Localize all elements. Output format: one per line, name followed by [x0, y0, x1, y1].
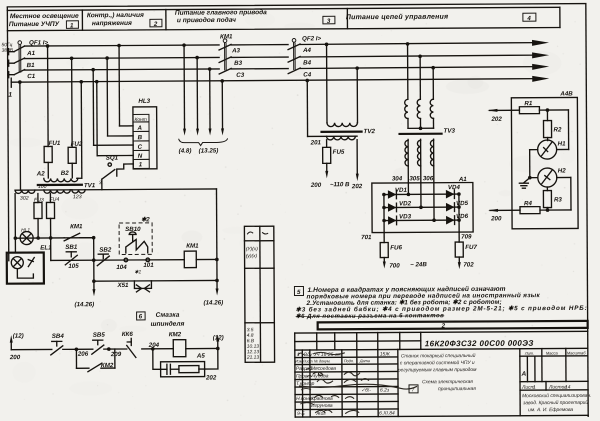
svg-text:Станок токарный специальный: Станок токарный специальный: [401, 352, 476, 359]
svg-text:КМ1: КМ1: [70, 223, 83, 230]
contact KM2 auxiliary: [76, 349, 115, 372]
svg-text:✱6 Для поставки разъема на 6 к: ✱6 Для поставки разъема на 6 контактов: [296, 312, 445, 320]
title block signature grid: [295, 348, 588, 417]
svg-text:✓б!-: ✓б!-: [361, 388, 371, 394]
svg-text:Схема электрическая: Схема электрическая: [422, 379, 473, 385]
svg-text:101: 101: [143, 262, 154, 269]
svg-text:302: 302: [20, 196, 29, 202]
pushbutton SB2: [97, 247, 112, 266]
svg-text:(12): (12): [213, 334, 224, 341]
svg-text:200: 200: [310, 182, 322, 189]
circuit breaker QF2: [288, 35, 322, 73]
svg-text:VD4: VD4: [448, 184, 461, 191]
svg-text:А4: А4: [302, 47, 312, 54]
circuit breaker QF1: [14, 39, 49, 74]
svg-text:VD1: VD1: [395, 187, 408, 194]
svg-text:6.В: 6.В: [247, 338, 255, 344]
wire neutral to TV1 primary: [76, 80, 83, 178]
transformer TV2: [305, 42, 375, 146]
svg-text:200: 200: [9, 354, 21, 361]
svg-text:1: 1: [8, 92, 12, 99]
diode VD2: [388, 200, 412, 211]
thermal contact KK6: [109, 331, 153, 358]
indicator block A4B: [511, 90, 578, 228]
suppressor block A5: [153, 348, 218, 381]
svg-text:709: 709: [461, 234, 472, 241]
svg-text:100: 100: [38, 184, 47, 190]
wire neutral to TV1 secondary: [18, 80, 22, 190]
wire bus B to HL3 pin B: [105, 56, 133, 136]
fuse FU6 and wire 700: [361, 232, 427, 269]
bus C wire (C1/C3/C4): [25, 64, 550, 80]
svg-text:шпинделя: шпинделя: [151, 320, 185, 328]
bus A wire (A1/A3/A4): [25, 40, 550, 57]
wire arrow (14.26) left: [74, 279, 95, 308]
svg-text:R3: R3: [554, 196, 563, 203]
svg-text:202: 202: [490, 116, 502, 123]
svg-text:50Гц: 50Гц: [2, 42, 13, 48]
fuse FU5: [310, 140, 350, 189]
svg-text:VD6: VD6: [456, 213, 469, 220]
svg-text:R2: R2: [554, 126, 563, 133]
svg-text:105: 105: [68, 263, 79, 270]
svg-text:напряжения: напряжения: [92, 20, 132, 27]
svg-text:5: 5: [297, 289, 301, 296]
svg-text:200: 200: [490, 215, 502, 222]
svg-text:VD2: VD2: [399, 200, 412, 207]
svg-text:201: 201: [310, 139, 322, 146]
pushbutton SB5: [92, 332, 122, 359]
header box 1 Местное освещение Питание УЧПУ: [7, 7, 560, 30]
svg-text:16К20Ф3С32 00С00 000ЭЗ: 16К20Ф3С32 00С00 000ЭЗ: [425, 339, 534, 349]
rectifier block A1: [372, 176, 473, 233]
wire neutral to HL3 pin N: [95, 80, 133, 156]
title block lit massa masshtab: [520, 348, 592, 413]
svg-text:Изм: Изм: [295, 359, 302, 363]
pushbutton SB4: [51, 333, 77, 355]
svg-text:701: 701: [361, 234, 372, 241]
wire bus C to HL3 pin C: [91, 68, 133, 146]
title block upper cells and document number: [295, 331, 588, 417]
svg-text:А4В: А4В: [559, 90, 573, 97]
svg-text:12.13: 12.13: [247, 349, 260, 355]
svg-text:КМ2: КМ2: [101, 362, 114, 369]
svg-text:6.2з: 6.2з: [380, 387, 390, 393]
wire 202 into A4B: [487, 109, 519, 123]
wires bus taps to plug (4.8)(13.25): [178, 43, 228, 155]
svg-text:Х51: Х51: [116, 282, 129, 289]
svg-text:(у)(х): (у)(х): [246, 253, 258, 259]
ground: [519, 178, 530, 189]
resistor R4 and wire 200: [488, 200, 571, 222]
notes item 5: [294, 284, 587, 320]
supply input stubs with ticks: [2, 42, 15, 78]
svg-text:с оперативной системой ЧПУ и: с оперативной системой ЧПУ и: [400, 359, 475, 366]
resistor R2: [543, 110, 562, 141]
svg-text:SQ1: SQ1: [106, 155, 119, 162]
bus B wire (B1/B3/B4): [25, 52, 550, 69]
svg-text:3.5: 3.5: [247, 327, 254, 333]
fuse FU2: [61, 141, 83, 178]
svg-text:Питание УЧПУ: Питание УЧПУ: [9, 21, 60, 28]
pushbutton SB10 with latch (option 2): [119, 216, 152, 261]
svg-text:1: 1: [70, 22, 74, 29]
svg-text:✱2: ✱2: [141, 216, 150, 223]
svg-text:№ докум.: № докум.: [314, 359, 331, 363]
wire bus A to HL3 pin A: [117, 44, 133, 126]
contact KM1 auxiliary (self-hold): [64, 223, 96, 260]
diode VD1: [388, 187, 408, 199]
relay coil KM2: [169, 331, 220, 357]
svg-text:А5: А5: [196, 353, 206, 360]
svg-text:А: А: [520, 371, 526, 378]
svg-text:206: 206: [77, 351, 89, 358]
svg-text:(4.8): (4.8): [179, 148, 192, 155]
svg-text:регулируемым главным приводом: регулируемым главным приводом: [397, 367, 477, 373]
transformer TV3: [391, 42, 456, 221]
relay coil KM1: [184, 242, 219, 267]
svg-text:9-Б: 9-Б: [297, 411, 305, 417]
svg-text:FU7: FU7: [465, 244, 477, 251]
contactor KM1 main contacts: [219, 33, 233, 74]
resistor R1: [519, 100, 549, 114]
svg-text:202: 202: [205, 374, 217, 381]
svg-text:им. А. И. Ефремова: им. А. И. Ефремова: [528, 407, 573, 413]
svg-text:~110 В: ~110 В: [330, 181, 350, 188]
svg-text:Н2: Н2: [558, 167, 567, 174]
svg-text:7: 7: [412, 387, 415, 393]
svg-text:А1: А1: [26, 50, 36, 57]
svg-text:380В: 380В: [2, 48, 14, 54]
svg-text:3: 3: [327, 18, 331, 25]
svg-text:Крайнова: Крайнова: [311, 395, 333, 402]
svg-text:✱1: ✱1: [134, 269, 141, 275]
svg-text:4: 4: [526, 15, 531, 22]
node 206: [75, 347, 93, 357]
svg-text:Конт: Конт: [134, 117, 146, 123]
fuse FU3: [34, 193, 44, 238]
diode VD5: [446, 200, 469, 211]
svg-text:3: 3: [99, 180, 102, 186]
svg-text:(14.26): (14.26): [204, 299, 224, 306]
svg-text:SВ4: SВ4: [52, 333, 65, 340]
lamp H1: [529, 110, 568, 178]
svg-text:В2: В2: [61, 170, 70, 177]
svg-text:1: 1: [139, 161, 143, 168]
diode VD4: [446, 184, 461, 198]
svg-text:10.13: 10.13: [247, 344, 260, 350]
node 204: [148, 342, 174, 351]
svg-text:209: 209: [110, 351, 122, 358]
title block top bar: [318, 321, 588, 331]
svg-text:Масса: Масса: [546, 351, 559, 356]
svg-text:Вду: Вду: [304, 352, 313, 358]
svg-text:✱3 без задней бабки; ✱4 с прив: ✱3 без задней бабки; ✱4 с приводом разме…: [296, 304, 588, 314]
svg-text:и приводов подач: и приводов подач: [177, 16, 236, 24]
svg-text:Мясоедова: Мясоедова: [311, 366, 336, 372]
svg-text:104: 104: [116, 264, 127, 271]
svg-text:ТV3: ТV3: [444, 128, 456, 135]
svg-text:Московский специализирован.: Московский специализирован.: [522, 392, 591, 399]
svg-text:21.13: 21.13: [246, 355, 260, 361]
wire bus A to FU1: [46, 44, 50, 146]
svg-text:С4: С4: [303, 71, 312, 78]
svg-text:А2: А2: [36, 170, 46, 177]
wire 202 from TV2: [351, 140, 363, 191]
svg-text:FU5: FU5: [333, 149, 345, 156]
svg-text:6.ХІ.84: 6.ХІ.84: [379, 410, 395, 416]
svg-text:ТV2: ТV2: [364, 128, 376, 135]
svg-text:(14.26): (14.26): [75, 301, 95, 308]
svg-text:Питание цепей управления: Питание цепей управления: [346, 13, 449, 22]
svg-text:– 24В: – 24В: [410, 261, 427, 268]
svg-text:А: А: [137, 125, 143, 132]
svg-text:Дата: Дата: [359, 359, 370, 363]
svg-text:В: В: [138, 134, 143, 141]
svg-text:305: 305: [409, 175, 420, 182]
svg-text:НL3: НL3: [138, 98, 150, 105]
wire 123 from TV1 to coil KM1: [215, 189, 218, 280]
svg-text:15Ж: 15Ж: [380, 351, 390, 357]
svg-text:202: 202: [351, 183, 363, 190]
svg-text:2: 2: [153, 21, 158, 28]
svg-text:Подп.: Подп.: [344, 359, 354, 363]
diode VD3: [388, 213, 412, 224]
lamp HL1: [13, 193, 93, 252]
indicator unit HL3: [133, 98, 157, 169]
svg-text:Местное освещение: Местное освещение: [10, 13, 79, 20]
machine lamp EL1: [7, 244, 53, 283]
svg-text:Чубова: Чубова: [312, 373, 329, 379]
header box 3 Питание главного привода и приводов подач: [175, 8, 348, 30]
svg-text:VD3: VD3: [399, 213, 412, 220]
svg-text:SВ5: SВ5: [93, 332, 106, 339]
diode VD6: [446, 213, 469, 224]
connector X51: [94, 259, 219, 292]
svg-text:С3: С3: [236, 72, 245, 79]
svg-text:С: С: [138, 144, 143, 151]
fuse FU1: [36, 140, 61, 178]
title block name cell: [397, 349, 520, 417]
svg-text:принципиальная: принципиальная: [438, 387, 476, 392]
svg-text:КМ1: КМ1: [220, 33, 233, 40]
svg-text:КМ2: КМ2: [169, 331, 182, 338]
svg-text:В1: В1: [27, 62, 36, 69]
svg-text:Игрунова: Игрунова: [311, 403, 333, 409]
fuse FU7 and wire 702: [455, 232, 477, 269]
svg-text:QF2 I>: QF2 I>: [302, 35, 322, 42]
header box 4 Питание цепей управления: [346, 7, 560, 28]
node 1 / neutral wire: [8, 75, 549, 99]
svg-text:VD5: VD5: [456, 200, 469, 207]
svg-text:Лит.: Лит.: [524, 351, 534, 356]
svg-text:702: 702: [463, 261, 474, 268]
pushbutton SB1: [65, 244, 78, 265]
svg-text:(12): (12): [13, 333, 24, 340]
switch SQ1: [99, 154, 134, 189]
svg-text:завод. Красный пролетарий: завод. Красный пролетарий: [522, 399, 588, 406]
svg-text:Смазка: Смазка: [156, 312, 180, 319]
svg-text:(13.25): (13.25): [199, 147, 219, 154]
control rung wire 105-104-101: [51, 258, 185, 276]
svg-text:FU6: FU6: [390, 244, 402, 251]
svg-text:Масштаб: Масштаб: [567, 350, 586, 355]
svg-text:ЕL1: ЕL1: [40, 244, 52, 251]
lamp H2: [528, 167, 571, 210]
terminal strip table: [244, 226, 274, 362]
wire arrow (14.26) right: [203, 280, 223, 306]
wire 200 arrow (12) left: [9, 332, 52, 361]
svg-text:700: 700: [389, 262, 400, 269]
svg-text:SB2: SB2: [99, 247, 112, 254]
svg-text:N: N: [138, 153, 143, 160]
note 6 Смазка шпинделя: [137, 312, 185, 328]
svg-text:С1: С1: [27, 73, 36, 80]
header box 2 Контроль наличия напряжения: [87, 10, 166, 31]
fuse FU4: [46, 193, 59, 260]
wire arrow (12) right: [213, 334, 224, 348]
svg-text:Контр.,) наличия: Контр.,) наличия: [87, 12, 144, 19]
svg-text:306: 306: [423, 175, 434, 182]
wire bus B to FU2: [70, 57, 74, 148]
svg-text:204: 204: [148, 342, 160, 349]
resistor R3: [543, 187, 562, 212]
svg-text:4.8: 4.8: [247, 333, 254, 339]
transformer TV1: [15, 177, 217, 201]
svg-text:Лист: Лист: [302, 359, 313, 363]
svg-text:ТV1: ТV1: [84, 182, 96, 189]
